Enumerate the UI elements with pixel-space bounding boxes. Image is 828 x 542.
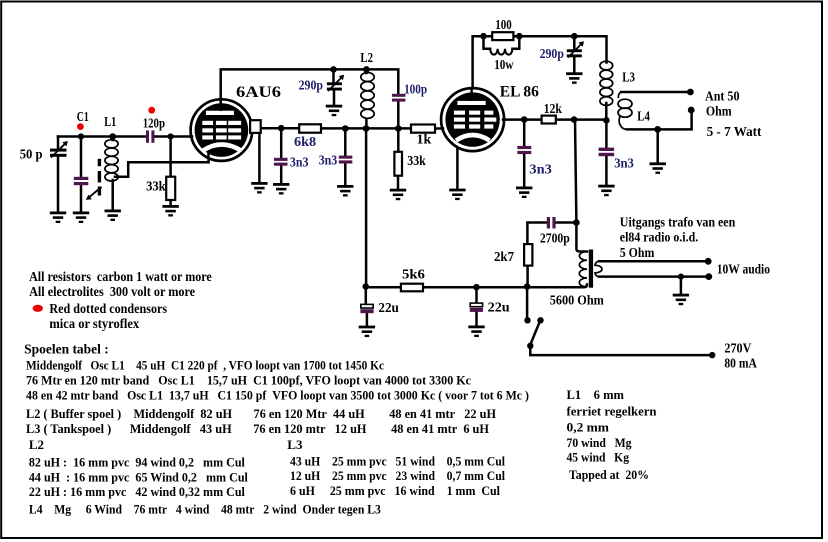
svg-text:33k: 33k <box>407 153 426 168</box>
svg-text:22 uH : 16 mm pvc 42 wind 0,: 22 uH : 16 mm pvc 42 wind 0,32 mm Cul <box>29 484 245 499</box>
svg-text:EL 86: EL 86 <box>500 84 539 101</box>
svg-text:L2: L2 <box>360 50 373 65</box>
svg-text:3n3: 3n3 <box>529 162 552 177</box>
svg-text:L2 ( Buffer spoel ) Middeng: L2 ( Buffer spoel ) Middengolf 82 uH 76 … <box>26 406 496 421</box>
svg-text:el84 radio o.i.d.: el84 radio o.i.d. <box>620 229 698 244</box>
svg-text:70 wind Mg: 70 wind Mg <box>567 435 632 450</box>
svg-text:2700p: 2700p <box>540 231 570 246</box>
svg-text:Uitgangs trafo van een: Uitgangs trafo van een <box>620 215 736 230</box>
svg-text:5 Ohm: 5 Ohm <box>620 245 655 260</box>
svg-text:C1: C1 <box>77 109 89 124</box>
svg-text:L1 6 mm: L1 6 mm <box>567 387 625 402</box>
svg-text:1k: 1k <box>417 132 432 147</box>
svg-text:44 uH : 16 mm pvc 65 Wind 0,: 44 uH : 16 mm pvc 65 Wind 0,2 mm Cul <box>29 469 248 484</box>
svg-text:All resistors carbon 1 watt o: All resistors carbon 1 watt or more <box>29 269 212 284</box>
svg-text:Ant 50: Ant 50 <box>705 89 740 104</box>
svg-text:50 p: 50 p <box>20 147 43 162</box>
svg-text:5 - 7 Watt: 5 - 7 Watt <box>707 124 762 139</box>
svg-text:100: 100 <box>495 17 512 32</box>
svg-text:48 en 42 mtr band Osc L1 13: 48 en 42 mtr band Osc L1 13,7 uH C1 150 … <box>26 387 529 402</box>
svg-text:L2: L2 <box>29 437 44 452</box>
svg-text:5k6: 5k6 <box>402 267 425 282</box>
svg-text:Spoelen tabel :: Spoelen tabel : <box>24 341 109 356</box>
svg-text:290p: 290p <box>540 46 564 61</box>
svg-text:3n3: 3n3 <box>290 155 309 170</box>
svg-text:L3: L3 <box>622 70 635 85</box>
svg-text:6k8: 6k8 <box>294 134 316 149</box>
svg-text:Middengolf Osc L1 45 uH: Middengolf Osc L1 45 uH C1 220 pf , VFO … <box>26 358 384 373</box>
svg-text:33k: 33k <box>146 179 166 194</box>
svg-text:100p: 100p <box>404 82 427 97</box>
svg-text:Ohm: Ohm <box>706 104 732 119</box>
svg-text:290p: 290p <box>299 78 323 93</box>
svg-text:3n3: 3n3 <box>319 153 338 168</box>
svg-text:2k7: 2k7 <box>494 249 514 264</box>
svg-text:22u: 22u <box>488 300 511 315</box>
svg-text:10w: 10w <box>494 57 513 72</box>
svg-text:6AU6: 6AU6 <box>236 84 281 101</box>
svg-text:82 uH : 16 mm pvc 94 wind 0,: 82 uH : 16 mm pvc 94 wind 0,2 mm Cul <box>29 455 245 470</box>
svg-text:80 mA: 80 mA <box>724 356 757 371</box>
svg-text:L4: L4 <box>637 109 650 124</box>
svg-text:45 wind Kg: 45 wind Kg <box>567 450 630 465</box>
svg-text:3n3: 3n3 <box>614 156 634 171</box>
svg-text:Red dotted condensors: Red dotted condensors <box>49 301 167 316</box>
svg-text:L3 ( Tankspoel ) Middengo: L3 ( Tankspoel ) Middengolf 43 uH 76 en … <box>26 421 489 436</box>
svg-text:76 Mtr en 120 mtr band Osc L: 76 Mtr en 120 mtr band Osc L1 15,7 uH C1… <box>26 373 471 388</box>
svg-text:0,2 mm: 0,2 mm <box>567 420 610 435</box>
svg-text:12 uH 25 mm pvc 23 wind: 12 uH 25 mm pvc 23 wind 0,7 mm Cul <box>290 468 505 483</box>
svg-text:10W audio: 10W audio <box>717 262 770 277</box>
svg-text:L3: L3 <box>287 437 303 452</box>
svg-text:Tapped at 20%: Tapped at 20% <box>569 467 649 482</box>
svg-text:270V: 270V <box>724 341 751 356</box>
svg-text:All electrolites 300 volt or: All electrolites 300 volt or more <box>29 284 195 299</box>
svg-text:120p: 120p <box>143 115 165 130</box>
svg-text:ferriet regelkern: ferriet regelkern <box>567 404 658 419</box>
svg-text:L4 Mg 6 Wind 76 mtr: L4 Mg 6 Wind 76 mtr 4 wind 48 mtr 2 wind… <box>29 502 381 517</box>
svg-text:mica or styroflex: mica or styroflex <box>49 316 139 331</box>
svg-text:22u: 22u <box>378 300 399 315</box>
svg-text:43 uH 25 mm pvc 51 wind: 43 uH 25 mm pvc 51 wind 0,5 mm Cul <box>290 453 505 468</box>
svg-text:L1: L1 <box>104 114 116 129</box>
svg-text:6 uH 25 mm pvc 16 wind: 6 uH 25 mm pvc 16 wind 1 mm Cul <box>290 483 500 498</box>
svg-text:5600 Ohm: 5600 Ohm <box>550 293 605 308</box>
svg-text:12k: 12k <box>544 101 563 116</box>
